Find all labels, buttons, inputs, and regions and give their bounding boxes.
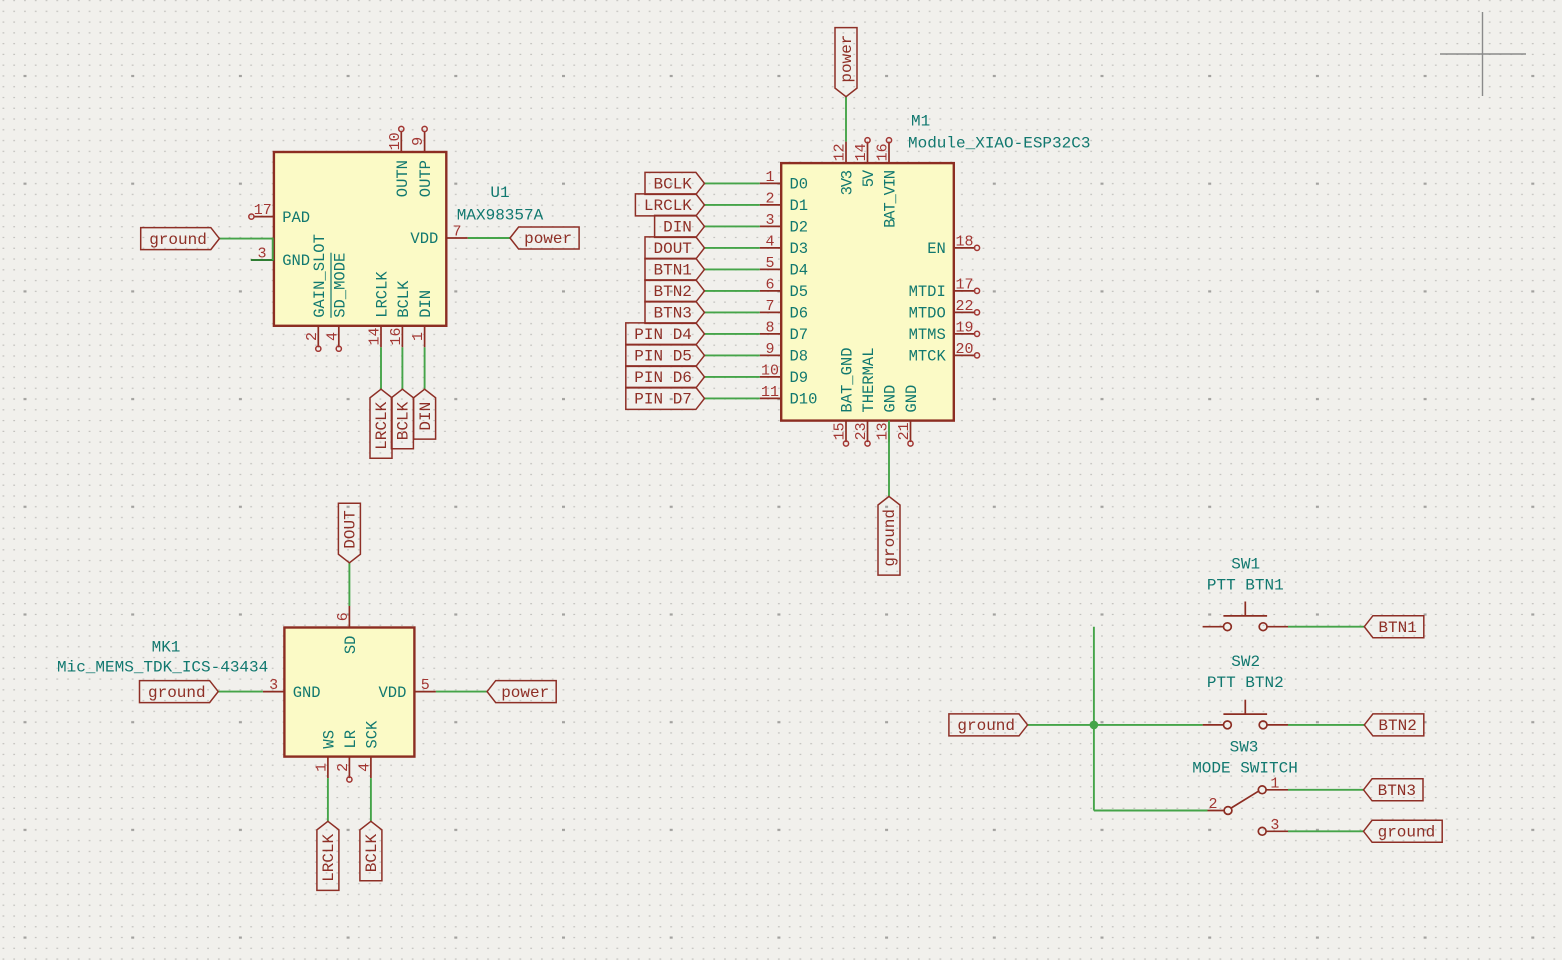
svg-text:PTT BTN2: PTT BTN2 xyxy=(1207,674,1284,692)
global label BTN3 xyxy=(645,301,705,323)
switch SW2 PTT BTN2 xyxy=(1203,700,1288,729)
value Mic_MEMS_TDK_ICS-43434 xyxy=(57,659,268,677)
reference U1 xyxy=(490,184,509,202)
M1 pin 15 BAT_GND xyxy=(832,347,857,446)
svg-text:GND: GND xyxy=(903,385,921,413)
svg-text:OUTP: OUTP xyxy=(417,160,435,197)
svg-text:5V: 5V xyxy=(860,169,878,187)
svg-text:PIN D7: PIN D7 xyxy=(634,391,692,409)
reference SW1 xyxy=(1231,556,1260,574)
MK1 pin 1 WS xyxy=(313,730,338,778)
svg-text:23: 23 xyxy=(853,422,870,440)
wire U1 BCLK xyxy=(401,347,403,389)
svg-text:4: 4 xyxy=(324,332,341,341)
svg-text:4: 4 xyxy=(356,763,373,772)
svg-text:SD_MODE: SD_MODE xyxy=(331,253,349,318)
global label BTN1 xyxy=(645,258,705,280)
value MAX98357A xyxy=(457,207,544,225)
svg-text:D2: D2 xyxy=(790,219,809,237)
svg-text:BTN3: BTN3 xyxy=(654,305,692,323)
svg-text:D10: D10 xyxy=(790,391,818,409)
wire SW3 pin1 to BTN3 xyxy=(1288,789,1364,791)
global label DOUT xyxy=(338,503,360,563)
global label BTN2 xyxy=(1364,714,1424,736)
wire BTN3 to M1 xyxy=(705,311,760,313)
wire PIN D5 to M1 xyxy=(705,354,760,356)
wire PIN D6 to M1 xyxy=(705,376,760,378)
IC U1 body xyxy=(274,152,446,326)
global label DIN (U1) xyxy=(414,389,436,439)
svg-text:2: 2 xyxy=(335,763,352,772)
svg-text:D6: D6 xyxy=(790,305,809,323)
global label ground (MK1) xyxy=(140,681,219,703)
svg-text:DIN: DIN xyxy=(417,402,435,431)
wire MK1 WS to LRCLK xyxy=(327,778,329,821)
SW3 pin 2 number xyxy=(1208,796,1217,813)
wire SW3 pin3 to ground xyxy=(1288,830,1364,832)
global label LRCLK (U1) xyxy=(370,389,392,458)
svg-text:LRCLK: LRCLK xyxy=(374,271,392,318)
wire MK1 SCK to BCLK xyxy=(370,778,372,821)
svg-text:SCK: SCK xyxy=(363,720,381,749)
M1 pin 3 D2 xyxy=(760,212,808,237)
svg-text:D0: D0 xyxy=(790,176,809,194)
svg-text:7: 7 xyxy=(765,298,774,315)
svg-text:BCLK: BCLK xyxy=(395,401,413,440)
svg-text:ground: ground xyxy=(1378,824,1436,842)
svg-text:THERMAL: THERMAL xyxy=(860,347,878,412)
wire U1 VDD to power xyxy=(468,237,510,239)
MK1 pin 3 GND xyxy=(263,677,321,702)
MK1 pin 5 VDD xyxy=(378,677,435,702)
svg-text:SW2: SW2 xyxy=(1231,653,1260,671)
reference MK1 xyxy=(152,639,181,657)
svg-text:10: 10 xyxy=(761,362,779,379)
global label PIN D5 xyxy=(626,344,705,366)
svg-text:5: 5 xyxy=(765,255,774,272)
SW3 pin 1 number xyxy=(1270,775,1279,792)
svg-text:power: power xyxy=(501,684,549,702)
switch SW3 MODE SWITCH xyxy=(1208,786,1289,835)
svg-text:LR: LR xyxy=(342,730,360,749)
svg-text:20: 20 xyxy=(955,341,973,358)
M1 pin 23 THERMAL xyxy=(853,347,878,446)
svg-text:PTT BTN1: PTT BTN1 xyxy=(1207,576,1284,594)
junction ground bus xyxy=(1090,721,1099,730)
svg-text:Module_XIAO-ESP32C3: Module_XIAO-ESP32C3 xyxy=(908,135,1090,153)
wire DOUT to M1 xyxy=(705,247,760,249)
wire U1 LRCLK xyxy=(380,347,382,389)
svg-text:15: 15 xyxy=(832,422,849,440)
svg-text:6: 6 xyxy=(335,612,352,621)
wire ground to MK1 xyxy=(218,691,263,693)
svg-text:16: 16 xyxy=(388,327,405,345)
svg-text:BTN3: BTN3 xyxy=(1378,782,1416,800)
microphone MK1 body xyxy=(284,628,414,757)
M1 pin 16 BAT_VIN xyxy=(875,138,900,228)
global label PIN D6 xyxy=(626,366,705,388)
U1 pin 3 GND xyxy=(251,246,310,271)
global label BTN1 xyxy=(1364,616,1424,638)
svg-text:power: power xyxy=(838,35,856,83)
svg-text:D1: D1 xyxy=(790,197,809,215)
svg-text:OUTN: OUTN xyxy=(394,160,412,197)
global label DOUT xyxy=(645,237,705,259)
svg-text:21: 21 xyxy=(896,422,913,440)
global label DIN xyxy=(655,215,705,237)
wire U1 DIN xyxy=(424,347,426,389)
M1 pin 21 GND xyxy=(896,385,921,446)
svg-text:DIN: DIN xyxy=(663,219,692,237)
global label PIN D4 xyxy=(626,323,705,345)
svg-text:D4: D4 xyxy=(790,262,809,280)
svg-text:14: 14 xyxy=(367,327,384,345)
svg-text:1: 1 xyxy=(313,763,330,772)
svg-text:ground: ground xyxy=(149,231,207,249)
M1 pin 9 D8 xyxy=(760,341,808,366)
svg-text:DIN: DIN xyxy=(417,290,435,318)
svg-text:GND: GND xyxy=(882,385,900,413)
svg-text:SW1: SW1 xyxy=(1231,556,1260,574)
global label LRCLK (MK1) xyxy=(317,821,339,890)
svg-text:WS: WS xyxy=(320,730,338,749)
U1 pin 7 VDD xyxy=(410,224,467,249)
global label power (M1) xyxy=(835,28,857,97)
U1 pin 10 OUTN xyxy=(387,126,412,197)
M1 pin 5 D4 xyxy=(760,255,808,280)
svg-text:SD: SD xyxy=(342,636,360,655)
M1 pin 2 D1 xyxy=(760,190,808,215)
svg-text:10: 10 xyxy=(387,132,404,150)
wire SW1 to BTN1 xyxy=(1288,626,1364,628)
wire PIN D4 to M1 xyxy=(705,333,760,335)
SW3 pin 3 number xyxy=(1270,817,1279,834)
wire DIN to M1 xyxy=(705,225,760,227)
svg-text:MAX98357A: MAX98357A xyxy=(457,207,544,225)
value PTT BTN2 xyxy=(1207,674,1284,692)
svg-text:EN: EN xyxy=(927,240,946,258)
svg-text:BCLK: BCLK xyxy=(654,176,693,194)
svg-text:ground: ground xyxy=(957,717,1015,735)
svg-text:D7: D7 xyxy=(790,326,809,344)
sheet origin crosshair xyxy=(1440,12,1526,96)
U1 pin 17 PAD xyxy=(249,202,310,227)
svg-text:1: 1 xyxy=(765,169,774,186)
svg-text:SW3: SW3 xyxy=(1230,739,1259,757)
wire SW2 to BTN2 xyxy=(1288,724,1364,726)
M1 pin 7 D6 xyxy=(760,298,808,323)
global label PIN D7 xyxy=(626,387,705,409)
svg-text:M1: M1 xyxy=(911,113,930,131)
svg-text:BTN2: BTN2 xyxy=(654,283,692,301)
svg-text:MTMS: MTMS xyxy=(909,326,946,344)
svg-text:7: 7 xyxy=(452,224,461,241)
svg-text:1: 1 xyxy=(410,332,427,341)
svg-text:ground: ground xyxy=(881,509,899,567)
svg-text:BTN1: BTN1 xyxy=(654,262,692,280)
value Module_XIAO-ESP32C3 xyxy=(908,135,1090,153)
svg-text:D8: D8 xyxy=(790,348,809,366)
wire ground bus vertical xyxy=(1093,627,1095,811)
svg-text:9: 9 xyxy=(410,137,427,146)
svg-text:1: 1 xyxy=(1270,775,1279,792)
svg-text:DOUT: DOUT xyxy=(342,510,360,548)
svg-text:MK1: MK1 xyxy=(152,639,181,657)
wire PIN D7 to M1 xyxy=(705,397,760,399)
svg-text:3: 3 xyxy=(269,677,278,694)
reference M1 xyxy=(911,113,930,131)
M1 pin 19 MTMS xyxy=(909,319,980,344)
M1 pin 17 MTDI xyxy=(909,276,980,301)
svg-text:11: 11 xyxy=(761,384,779,401)
M1 pin 10 D9 xyxy=(760,362,808,387)
wire BTN2 to M1 xyxy=(705,290,760,292)
MK1 pin 6 SD xyxy=(335,606,360,654)
U1 pin 4 SD_MODE xyxy=(324,253,349,352)
U1 pin 16 BCLK xyxy=(388,280,413,347)
module M1 body xyxy=(781,163,954,421)
global label BCLK (U1) xyxy=(391,389,413,449)
global label power (U1) xyxy=(510,227,579,249)
U1 pin 2 GAIN_SLOT xyxy=(304,234,329,351)
M1 pin 4 D3 xyxy=(760,233,808,258)
svg-text:8: 8 xyxy=(765,319,774,336)
svg-text:LRCLK: LRCLK xyxy=(320,833,338,881)
wire ground bus to SW3 pin2 xyxy=(1094,810,1208,812)
svg-text:2: 2 xyxy=(765,190,774,207)
svg-text:3: 3 xyxy=(765,212,774,229)
M1 pin 18 EN xyxy=(927,233,979,258)
global label BCLK xyxy=(645,172,705,194)
svg-text:power: power xyxy=(524,230,572,248)
svg-text:GND: GND xyxy=(282,252,310,270)
svg-text:GND: GND xyxy=(293,684,321,702)
svg-text:MTCK: MTCK xyxy=(909,348,947,366)
svg-text:BAT_VIN: BAT_VIN xyxy=(882,170,900,228)
M1 pin 1 D0 xyxy=(760,169,808,194)
value PTT BTN1 xyxy=(1207,576,1284,594)
svg-text:D9: D9 xyxy=(790,369,809,387)
svg-text:VDD: VDD xyxy=(410,230,438,248)
wire ground to U1 pin 3 xyxy=(219,239,272,260)
wire M1 GND to ground xyxy=(888,421,890,497)
svg-text:BCLK: BCLK xyxy=(395,280,413,318)
U1 pin 9 OUTP xyxy=(410,126,435,197)
svg-text:2: 2 xyxy=(304,332,321,341)
svg-text:GAIN_SLOT: GAIN_SLOT xyxy=(311,234,329,318)
svg-text:BTN1: BTN1 xyxy=(1378,619,1416,637)
M1 pin 20 MTCK xyxy=(909,341,980,366)
M1 pin 13 GND xyxy=(875,385,900,442)
svg-text:17: 17 xyxy=(254,202,272,219)
wire MK1 VDD to power xyxy=(436,691,487,693)
global label ground xyxy=(141,228,220,250)
U1 pin 14 LRCLK xyxy=(367,271,392,348)
svg-text:PAD: PAD xyxy=(282,209,310,227)
svg-text:3V3: 3V3 xyxy=(839,170,857,195)
svg-text:MODE SWITCH: MODE SWITCH xyxy=(1192,759,1298,777)
global label ground (SW3) xyxy=(1364,820,1443,842)
svg-text:MTDO: MTDO xyxy=(909,305,946,323)
M1 pin 11 D10 xyxy=(760,384,818,409)
M1 pin 14 5V xyxy=(853,138,878,188)
reference SW2 xyxy=(1231,653,1260,671)
M1 pin 6 D5 xyxy=(760,276,808,301)
global label BTN3 xyxy=(1364,779,1424,801)
svg-text:MTDI: MTDI xyxy=(909,283,946,301)
svg-text:VDD: VDD xyxy=(378,684,406,702)
svg-text:U1: U1 xyxy=(490,184,509,202)
svg-text:2: 2 xyxy=(1208,796,1217,813)
svg-text:5: 5 xyxy=(421,677,430,694)
svg-text:22: 22 xyxy=(955,298,973,315)
MK1 pin 4 SCK xyxy=(356,720,381,778)
global label ground (switches) xyxy=(949,714,1028,736)
svg-text:18: 18 xyxy=(955,233,973,250)
svg-text:9: 9 xyxy=(765,341,774,358)
svg-text:19: 19 xyxy=(955,319,973,336)
svg-text:14: 14 xyxy=(853,143,870,161)
svg-text:12: 12 xyxy=(832,143,849,161)
U1 pin 1 DIN xyxy=(410,290,435,347)
value MODE SWITCH xyxy=(1192,759,1298,777)
wire BTN1 to M1 xyxy=(705,268,760,270)
global label power (MK1) xyxy=(487,681,556,703)
svg-text:Mic_MEMS_TDK_ICS-43434: Mic_MEMS_TDK_ICS-43434 xyxy=(57,659,268,677)
MK1 pin 2 LR xyxy=(335,730,360,782)
svg-text:17: 17 xyxy=(955,276,973,293)
wire DOUT to MK1 SD xyxy=(348,563,350,606)
svg-text:PIN D6: PIN D6 xyxy=(634,369,692,387)
global label BCLK (MK1) xyxy=(360,821,382,881)
svg-text:16: 16 xyxy=(875,143,892,161)
svg-text:3: 3 xyxy=(1270,817,1279,834)
M1 pin 8 D7 xyxy=(760,319,808,344)
global label ground (M1) xyxy=(878,496,900,575)
svg-text:BAT_GND: BAT_GND xyxy=(839,347,857,412)
svg-text:BCLK: BCLK xyxy=(363,833,381,872)
svg-text:6: 6 xyxy=(765,276,774,293)
svg-text:D5: D5 xyxy=(790,283,809,301)
wire BCLK to M1 xyxy=(705,182,760,184)
wire LRCLK to M1 xyxy=(705,204,760,206)
wire power to M1 3V3 xyxy=(845,97,847,142)
svg-text:PIN D4: PIN D4 xyxy=(634,326,692,344)
M1 pin 12 3V3 xyxy=(832,142,857,196)
svg-text:PIN D5: PIN D5 xyxy=(634,348,692,366)
svg-text:ground: ground xyxy=(148,684,206,702)
svg-text:DOUT: DOUT xyxy=(654,240,692,258)
global label BTN2 xyxy=(645,280,705,302)
svg-text:LRCLK: LRCLK xyxy=(373,401,391,449)
switch SW1 PTT BTN1 xyxy=(1203,602,1288,631)
wire ground bus horizontal xyxy=(1028,724,1203,726)
global label LRCLK xyxy=(635,194,704,216)
svg-text:4: 4 xyxy=(765,233,774,250)
M1 pin 22 MTDO xyxy=(909,298,980,323)
svg-text:3: 3 xyxy=(257,246,266,263)
svg-text:BTN2: BTN2 xyxy=(1378,717,1416,735)
svg-text:LRCLK: LRCLK xyxy=(644,197,692,215)
svg-text:D3: D3 xyxy=(790,240,809,258)
reference SW3 xyxy=(1230,739,1259,757)
